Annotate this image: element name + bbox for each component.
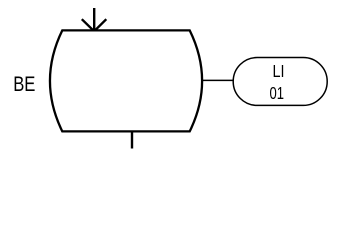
- svg-text:LI: LI: [273, 61, 285, 81]
- vessel BE: [50, 30, 202, 131]
- svg-text:BE: BE: [13, 73, 35, 96]
- svg-text:01: 01: [270, 83, 285, 103]
- bottom outlet stub: [131, 131, 133, 148]
- inlet arrow (head): [82, 19, 107, 31]
- inlet arrow (tail): [93, 8, 95, 30]
- instrument bubble LI 01: [233, 58, 327, 106]
- wire (vessel to instrument LI-01): [202, 79, 234, 81]
